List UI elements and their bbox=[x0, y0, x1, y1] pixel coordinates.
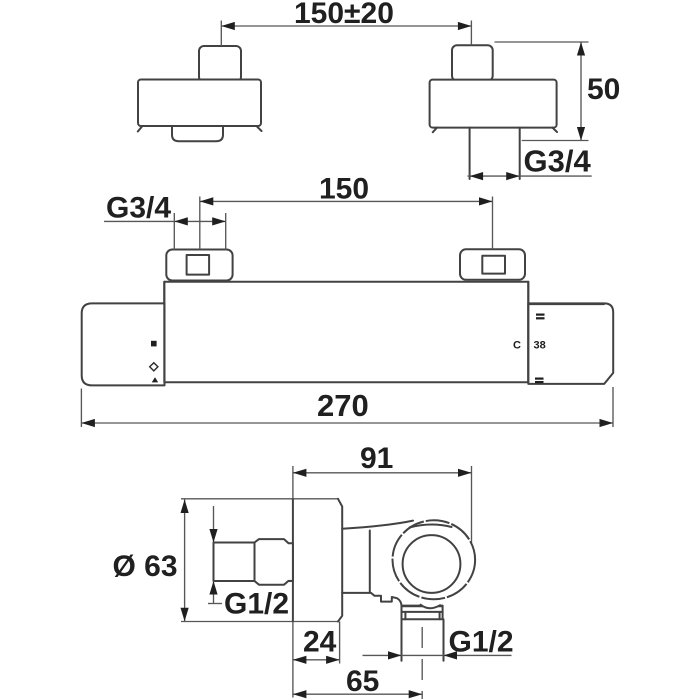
svg-text:50: 50 bbox=[587, 73, 620, 106]
dimension Ø63 arrow up bbox=[181, 500, 189, 514]
handle right bbox=[528, 303, 613, 384]
dimension G1/2 left arrow down bbox=[209, 529, 217, 543]
handle left bbox=[82, 303, 165, 385]
inlet connector left block bbox=[166, 250, 232, 281]
dimension Ø63 line bbox=[184, 500, 186, 622]
svg-text:C: C bbox=[513, 340, 521, 352]
outlet stem right edge bbox=[443, 619, 445, 661]
dimension 50 line bbox=[580, 42, 582, 141]
dimension 50 bottom ext line bbox=[522, 140, 589, 142]
outlet stem left edge bbox=[401, 619, 403, 661]
dimension 24 line bbox=[293, 659, 340, 661]
dimension 150±20 ext right bbox=[470, 21, 472, 46]
dimension G1/2 left upper tail bbox=[213, 506, 215, 543]
collar inner band line bbox=[402, 611, 443, 613]
wall union left, bottom collar bbox=[172, 127, 223, 142]
svg-text:65: 65 bbox=[346, 665, 379, 698]
dimension 91 ext right bbox=[471, 466, 473, 554]
collar notch under knob bbox=[421, 604, 441, 609]
knob top facet arc bbox=[410, 525, 452, 528]
dimension 150 ext left bbox=[199, 197, 201, 250]
svg-text:Ø 63: Ø 63 bbox=[113, 550, 178, 583]
dimension 24 arrow right bbox=[326, 656, 340, 664]
dimension G3/4 left arrow right bbox=[212, 217, 226, 225]
wall union right, top connector bbox=[452, 45, 493, 81]
valve neck divider bbox=[369, 531, 371, 593]
svg-text:150±20: 150±20 bbox=[294, 0, 394, 30]
dimension 270 arrow left bbox=[81, 419, 95, 427]
dimension 150 ext right bbox=[492, 197, 494, 250]
dimension 270 arrow right bbox=[600, 419, 614, 427]
dimension 24 ext right bbox=[339, 622, 341, 664]
dimension 65 arrow right bbox=[409, 690, 423, 698]
dimension 50 arrow down bbox=[577, 127, 585, 141]
dimension 50 top ext line bbox=[495, 41, 589, 43]
side view union nut bbox=[255, 539, 293, 585]
mixer bar body right edge redraw bbox=[527, 282, 529, 383]
dimension G3/4 right arrow left bbox=[470, 172, 484, 180]
dimension 65 line bbox=[293, 693, 422, 695]
wall union right, G3/4 stem right edge bbox=[519, 128, 521, 179]
svg-text:91: 91 bbox=[360, 442, 393, 475]
svg-text:G3/4: G3/4 bbox=[524, 144, 592, 179]
dimension 150 line bbox=[200, 200, 493, 202]
dimension G1/2 right line under text bbox=[363, 654, 512, 656]
outlet centerline dashed bbox=[421, 627, 423, 699]
knob inner circle bbox=[403, 535, 461, 593]
mixer bar body bbox=[164, 282, 528, 383]
dimension G3/4 left ext b bbox=[225, 213, 227, 250]
svg-text:150: 150 bbox=[319, 172, 369, 205]
dimension 150±20 line bbox=[221, 25, 471, 27]
dimension 50 arrow up bbox=[577, 42, 585, 56]
dimension G3/4 right line under text bbox=[468, 175, 592, 177]
svg-text:G3/4: G3/4 bbox=[106, 191, 171, 224]
dimension 150±20 arrow left bbox=[221, 22, 235, 30]
mixer bar body left edge redraw bbox=[163, 282, 165, 383]
svg-text:24: 24 bbox=[303, 625, 337, 658]
wall union left, top connector bbox=[199, 46, 241, 82]
dimension G1/2 left arrow up bbox=[209, 581, 217, 595]
dimension 24 ext left long bbox=[292, 622, 294, 698]
side view wall flange left edge bbox=[292, 499, 294, 622]
dimension 150±20 ext left bbox=[220, 21, 222, 47]
dimension G1/2 right arrow to left edge bbox=[388, 651, 402, 659]
valve neck bottom outline with tab bbox=[342, 593, 401, 606]
wall union right, G3/4 stem left edge bbox=[469, 128, 471, 179]
wall union right, corner tick right bbox=[553, 128, 558, 132]
dimension 150 arrow right bbox=[479, 197, 493, 205]
dimension G3/4 left arrow left bbox=[174, 217, 188, 225]
dimension 150 arrow left bbox=[200, 197, 214, 205]
side view inlet pipe bbox=[214, 543, 255, 582]
dimension 65 arrow left bbox=[293, 690, 307, 698]
handle right thick top edge bbox=[529, 303, 604, 305]
dimension G3/4 left line under text bbox=[104, 220, 226, 222]
symbol top mark on handle right bbox=[536, 314, 545, 316]
svg-text:G1/2: G1/2 bbox=[224, 588, 289, 621]
dimension 270 line bbox=[81, 422, 613, 424]
knob outer circle bbox=[393, 520, 476, 599]
dimension 150±20 arrow right bbox=[458, 22, 472, 30]
dimension 91 arrow left bbox=[293, 469, 307, 477]
wall union right, body bbox=[430, 80, 557, 128]
svg-text:G1/2: G1/2 bbox=[449, 625, 514, 658]
side view wall flange bottom edge with diameter ext bbox=[181, 621, 338, 623]
dimension 24 arrow left bbox=[293, 656, 307, 664]
wall union left, body bbox=[138, 80, 261, 127]
dimension 91 ext left bbox=[292, 466, 294, 499]
dimension G3/4 left ext a bbox=[173, 213, 175, 250]
side view wall flange right edge with chamfers bbox=[338, 499, 342, 622]
wall union right, corner tick left bbox=[433, 128, 437, 133]
dimension 91 line bbox=[293, 472, 472, 474]
valve neck top edge bbox=[342, 521, 413, 529]
dimension 91 arrow right bbox=[458, 469, 472, 477]
collar inner band verticals bbox=[405, 612, 439, 619]
dimension G3/4 right arrow right bbox=[506, 172, 520, 180]
wall union left, corner tick right bbox=[257, 127, 262, 132]
dimension 270 ext left bbox=[80, 389, 82, 428]
symbol diamond on handle left bbox=[150, 363, 158, 371]
wall union left, corner tick left bbox=[138, 127, 142, 132]
dimension G1/2 left lower tail bbox=[213, 581, 215, 604]
dimension G1/2 left end tick bbox=[208, 603, 222, 605]
symbol bottom mark on handle right bbox=[535, 378, 544, 380]
dimension Ø63 arrow down bbox=[181, 608, 189, 622]
symbol dot on handle left bbox=[151, 341, 157, 347]
dimension G1/2 right arrow to right edge bbox=[444, 651, 458, 659]
inlet connector right block bbox=[460, 249, 525, 279]
side view wall flange top edge with diameter ext bbox=[181, 498, 338, 500]
svg-text:38: 38 bbox=[534, 340, 546, 352]
svg-text:270: 270 bbox=[317, 388, 369, 423]
inlet connector left inner square bbox=[187, 255, 210, 275]
inlet connector right inner square bbox=[482, 256, 505, 274]
dimension 270 ext right bbox=[612, 387, 614, 427]
symbol triangle on handle left bbox=[152, 377, 159, 382]
outlet collar bbox=[402, 606, 443, 620]
